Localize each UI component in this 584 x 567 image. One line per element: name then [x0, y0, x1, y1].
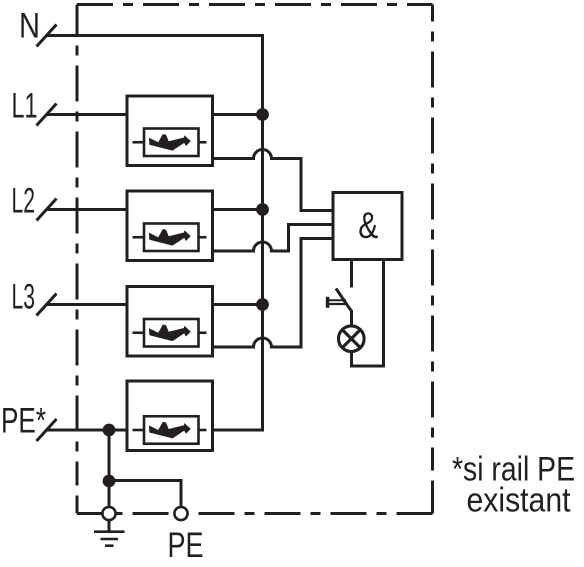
surge arrester F1	[127, 96, 213, 166]
svg-text:N: N	[19, 7, 40, 46]
wire PE* input	[47, 429, 129, 432]
disconnect slash L3	[37, 294, 57, 316]
wire L2 output to bus	[211, 208, 263, 211]
enclosure dash-dot border bottom	[77, 512, 433, 515]
wire F3 status to AND gate	[211, 239, 335, 348]
wire F2 status to AND gate	[211, 225, 335, 252]
surge arrester F2	[127, 191, 213, 261]
svg-text:L3: L3	[12, 278, 36, 317]
node L1-N bus junction	[256, 108, 269, 121]
svg-text:existant: existant	[467, 482, 571, 520]
disconnect slash N	[37, 25, 57, 47]
node L2-N bus junction	[256, 203, 269, 216]
wire N bus	[261, 34, 264, 430]
disconnect slash L2	[37, 199, 57, 221]
svg-text:L1: L1	[12, 87, 38, 126]
svg-text:PE*: PE*	[1, 402, 46, 441]
terminal earth	[102, 507, 115, 520]
svg-text:&: &	[358, 205, 378, 246]
lamp H1	[339, 326, 365, 352]
enclosure dash-dot border right	[431, 5, 434, 514]
disconnect slash L1	[37, 104, 57, 126]
switch S1 blade	[336, 289, 352, 325]
wire N	[47, 34, 264, 37]
wire L3 output to bus	[211, 303, 263, 306]
svg-text:L2: L2	[12, 182, 36, 221]
disconnect slash PE*	[37, 419, 57, 441]
wire branch to PE terminal	[109, 481, 181, 508]
svg-text:PE: PE	[168, 526, 204, 565]
enclosure dash-dot border left	[76, 5, 79, 514]
wire L1 input	[47, 113, 129, 116]
terminal PE	[174, 507, 187, 520]
wire L1 output to bus	[211, 113, 263, 116]
wire L2 input	[47, 208, 129, 211]
node PE* branch junction	[103, 424, 116, 437]
ground	[108, 520, 111, 531]
wire F1 status to AND gate	[211, 150, 335, 211]
surge arrester F4	[127, 381, 213, 451]
node L3-N bus junction	[256, 298, 269, 311]
wire L3 input	[47, 303, 129, 306]
switch actuator bar	[326, 297, 330, 308]
enclosure dash-dot border top	[77, 3, 433, 6]
wire F4 output to bus	[211, 429, 264, 432]
wire PE* to earth terminal	[108, 430, 111, 508]
wire AND output to switch	[350, 260, 353, 288]
surge arrester F3	[127, 287, 213, 357]
wire lamp return to AND gate	[352, 260, 384, 367]
node earth branch junction	[103, 475, 116, 488]
switch actuator linkage	[329, 299, 346, 301]
AND gate U1	[333, 193, 402, 260]
